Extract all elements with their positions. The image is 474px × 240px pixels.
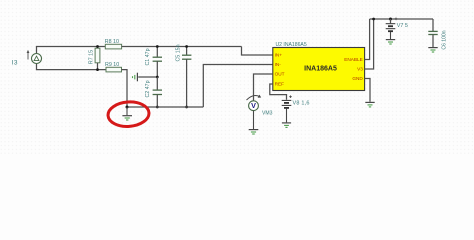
annotation red ellipse (107, 101, 150, 128)
node C2 bottom junction (156, 106, 159, 109)
battery V7 (386, 18, 398, 32)
wire supply rail (370, 18, 433, 20)
wire ground bus (127, 106, 203, 108)
node C5 bottom junction (185, 106, 188, 109)
wire GND pin to ground (365, 79, 370, 102)
svg-text:C5 15n: C5 15n (176, 44, 182, 61)
svg-text:U2 INA186A5: U2 INA186A5 (276, 42, 307, 48)
svg-text:R9 10: R9 10 (105, 62, 119, 68)
svg-text:IN-: IN- (275, 62, 282, 67)
svg-text:R7 15: R7 15 (89, 50, 95, 64)
svg-text:C6 100n: C6 100n (442, 30, 448, 49)
svg-text:V: V (251, 101, 256, 110)
node R7 top junction (96, 45, 99, 48)
capacitor C2 (153, 77, 162, 107)
svg-text:REF: REF (275, 82, 285, 87)
wire IN+ step down to IC (242, 47, 273, 56)
wire REF to V8 (270, 84, 287, 100)
current source I3 (27, 50, 42, 64)
svg-text:INA186A5: INA186A5 (304, 66, 337, 73)
wire bottom from I3 to R9 (37, 64, 107, 70)
node mid junction (156, 76, 159, 79)
wire top rail from I3 to R8 (37, 47, 106, 54)
node C5 top junction (185, 45, 188, 48)
wire mid node to ground (138, 76, 157, 78)
svg-text:ENABLE: ENABLE (344, 57, 363, 62)
battery V8 (282, 95, 292, 108)
svg-text:V8 1,6: V8 1,6 (293, 100, 310, 106)
capacitor C1 (153, 47, 162, 78)
node C1 top junction (156, 45, 159, 48)
ground below VM3 (249, 111, 259, 134)
resistor R8 (105, 44, 121, 49)
svg-text:V7 5: V7 5 (397, 23, 408, 29)
node R7 bottom junction (96, 68, 99, 71)
ground below GND pin (365, 102, 374, 107)
svg-text:R8 10: R8 10 (105, 39, 119, 45)
wire OUT to voltmeter (254, 74, 273, 101)
wire V3 up to rail (365, 19, 374, 69)
svg-text:I3: I3 (12, 60, 18, 67)
svg-text:C1 47p: C1 47p (145, 48, 151, 65)
node V3 rail junction (372, 18, 375, 21)
ground below V8 (282, 109, 291, 128)
svg-text:V3: V3 (357, 67, 363, 72)
wire R8 to IN+ corner (122, 46, 242, 48)
svg-text:VM3: VM3 (262, 111, 273, 117)
capacitor C6 (428, 19, 437, 47)
svg-text:GND: GND (352, 76, 363, 81)
svg-text:IN+: IN+ (275, 53, 283, 58)
wire IN- from bus to IC (203, 65, 272, 108)
svg-text:C2 47p: C2 47p (145, 80, 151, 97)
capacitor C5 (182, 47, 191, 108)
ground below C6 (428, 48, 437, 52)
wire R9 down to ground bus (122, 70, 128, 107)
resistor R7 (95, 47, 100, 70)
ground below V7 (386, 32, 395, 44)
resistor R9 (106, 67, 122, 72)
wire ENABLE up to rail (365, 19, 370, 60)
ground (circled) (122, 107, 132, 120)
node V7 rail junction (389, 18, 392, 21)
node ground bus junction (126, 106, 129, 109)
op-amp U2 INA186A5 (273, 48, 365, 91)
svg-text:OUT: OUT (275, 72, 285, 77)
voltmeter VM3 (247, 95, 262, 111)
ground (rotated left) at mid node (133, 73, 138, 82)
